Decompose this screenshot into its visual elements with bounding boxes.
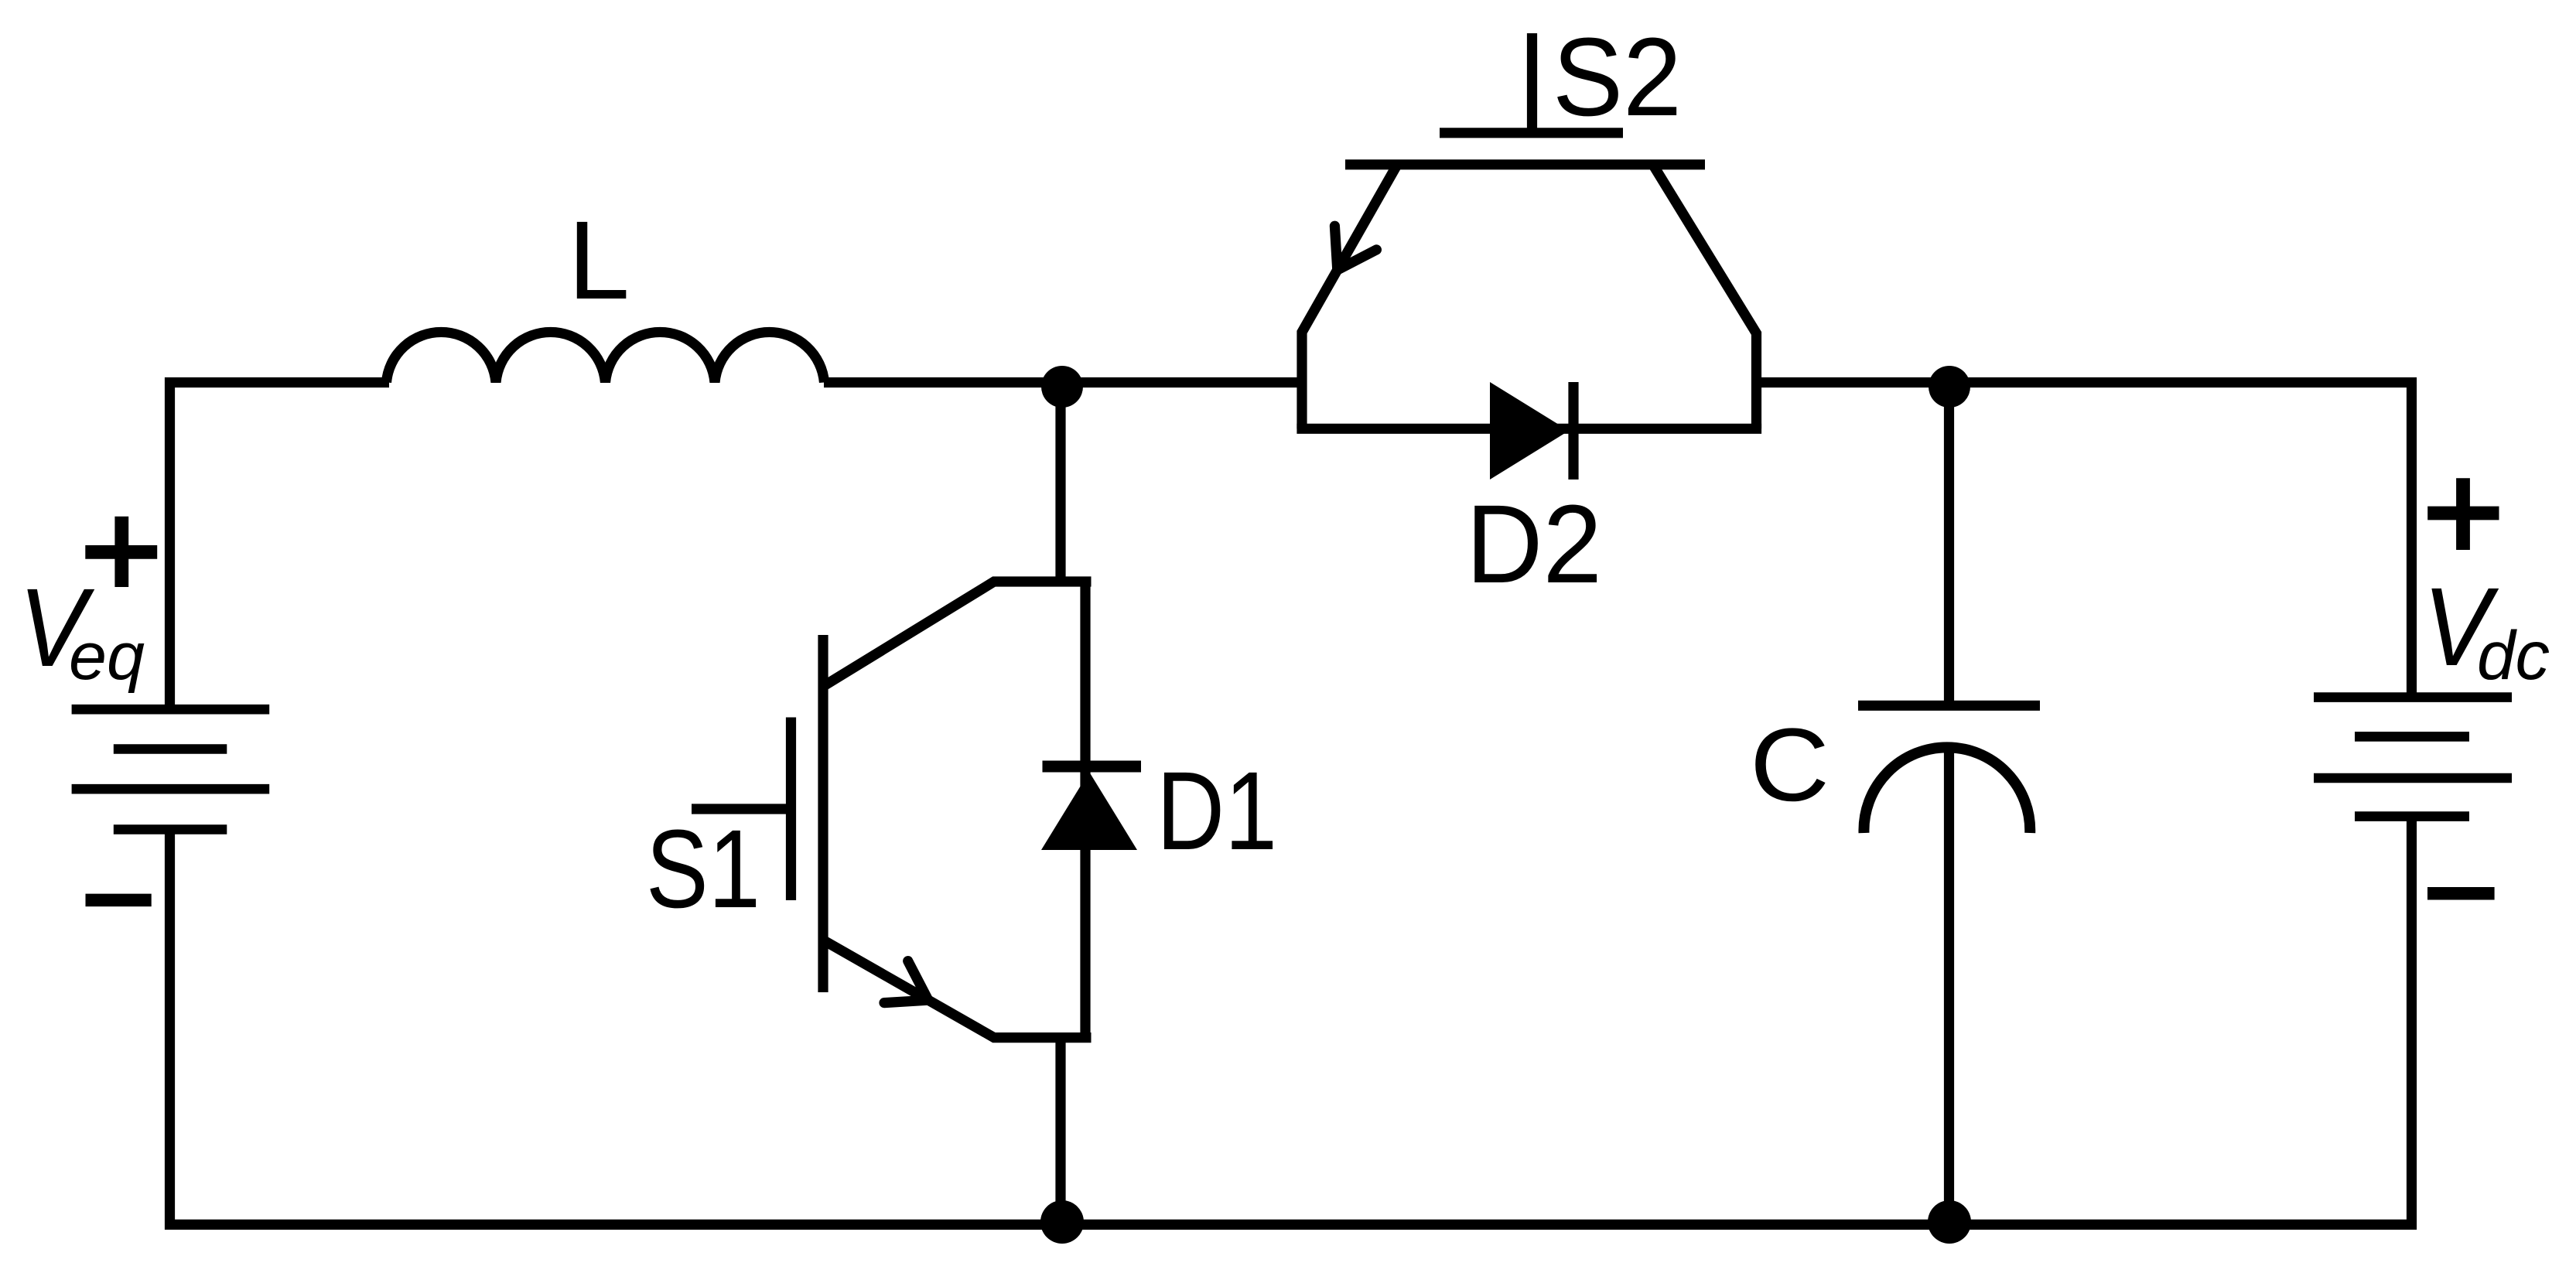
wire S1 emitter to bottom node D <box>1055 1038 1065 1230</box>
svg-text:C: C <box>1750 708 1830 823</box>
bottom wire node D to node C <box>1062 1220 1949 1230</box>
inductor L <box>387 332 825 382</box>
wire S2 to node B <box>1761 377 1949 387</box>
wire S2 bottom conductor (emitter to collector through D2) <box>1297 424 1761 434</box>
plus sign Vdc <box>2427 478 2499 550</box>
wire Veq- to bottom-left corner <box>170 830 1063 1225</box>
minus sign Veq <box>86 894 152 907</box>
wire capacitor to bottom node C <box>1944 745 1954 1230</box>
node A <box>1041 366 1083 408</box>
svg-text:D2: D2 <box>1466 482 1602 606</box>
wire node B down to capacitor <box>1944 383 1954 701</box>
wire inductor to node A <box>824 377 1062 387</box>
svg-text:S2: S2 <box>1553 15 1682 139</box>
plus sign Veq <box>85 517 157 587</box>
transistor S2 (IGBT) <box>1302 33 1757 428</box>
svg-text:S1: S1 <box>646 807 760 931</box>
wire node A to S2 emitter <box>1062 377 1300 387</box>
node C <box>1928 1200 1971 1244</box>
node B <box>1929 366 1970 408</box>
voltage source Vdc (battery) <box>2314 698 2512 817</box>
svg-text:eq: eq <box>69 619 145 694</box>
diode D2 <box>1490 382 1573 480</box>
wire top-left corner (Veq+ to inductor) <box>170 383 390 710</box>
wire Vdc- down to bottom-right corner <box>2407 817 2417 1230</box>
wire node A down to S1 collector <box>1055 383 1065 581</box>
svg-text:D1: D1 <box>1156 749 1277 873</box>
minus sign Vdc <box>2427 887 2495 900</box>
bottom wire node C to Vdc- <box>1949 1220 2417 1230</box>
svg-text:L: L <box>568 198 630 323</box>
voltage source Veq (battery) <box>72 709 270 829</box>
diode D1 <box>1041 582 1141 1038</box>
wire node B to top-right corner (Vdc+) <box>1949 383 2412 698</box>
transistor S1 (IGBT) <box>692 582 1092 1038</box>
capacitor C <box>1858 705 2040 833</box>
node D (S1 bottom junction) <box>1040 1200 1084 1244</box>
svg-text:dc: dc <box>2477 616 2550 694</box>
